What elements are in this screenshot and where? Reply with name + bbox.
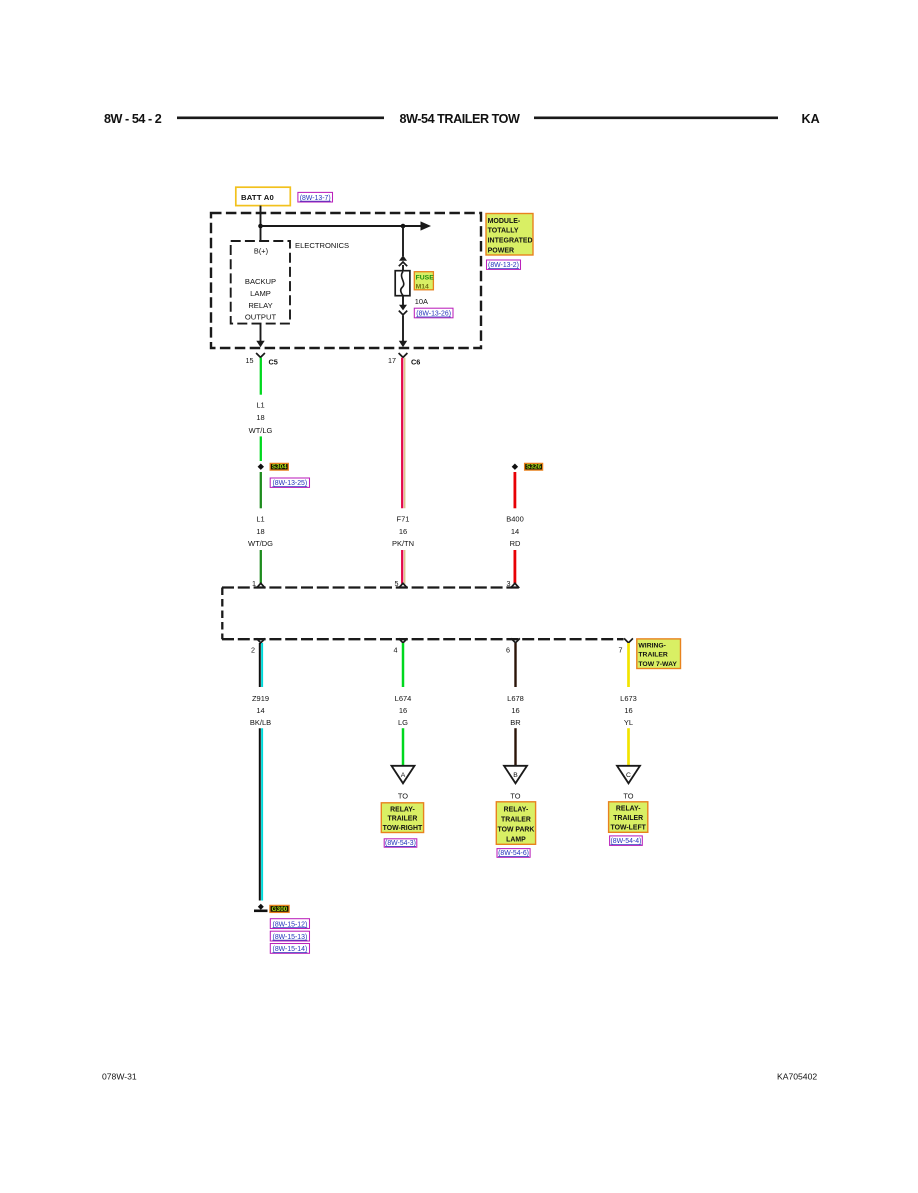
off-page connector A xyxy=(392,766,415,784)
off-page connector B xyxy=(504,766,527,784)
svg-text:B400: B400 xyxy=(506,515,524,524)
svg-text:BATT A0: BATT A0 xyxy=(241,193,274,202)
off-page connector C xyxy=(617,766,640,784)
svg-text:4: 4 xyxy=(394,646,398,655)
text ELECTRONICS xyxy=(295,241,349,250)
destination label RELAY-TRAILER TOW-LEFT xyxy=(609,802,648,833)
text TO (B) xyxy=(510,792,520,801)
splice label S304 xyxy=(270,463,288,470)
pin 7 label xyxy=(619,646,623,655)
header rule right xyxy=(534,117,778,120)
svg-text:18: 18 xyxy=(256,527,264,536)
pin 5 chevron xyxy=(399,583,408,588)
svg-text:TOTALLY: TOTALLY xyxy=(488,228,519,235)
svg-text:(8W-15-14): (8W-15-14) xyxy=(273,946,308,953)
svg-text:TOW-RIGHT: TOW-RIGHT xyxy=(383,825,423,832)
text TO (A) xyxy=(398,792,408,801)
svg-text:(8W-13-26): (8W-13-26) xyxy=(416,311,451,318)
wire below fuse xyxy=(402,296,404,305)
svg-text:INTEGRATED: INTEGRATED xyxy=(488,238,533,245)
destination label RELAY-TRAILER TOW-RIGHT xyxy=(381,803,423,833)
link 8W-15-13 xyxy=(270,931,309,941)
wire WT/DG lower segment xyxy=(260,550,262,584)
svg-text:(8W-13-2): (8W-13-2) xyxy=(488,262,519,269)
link 8W-13-2 xyxy=(487,260,521,269)
wire label F71 16 PK/TN xyxy=(392,515,414,549)
svg-text:C6: C6 xyxy=(411,358,420,367)
wire relay output to C5 xyxy=(256,324,264,348)
svg-text:S326: S326 xyxy=(526,464,541,471)
svg-text:TO: TO xyxy=(623,792,633,801)
svg-text:16: 16 xyxy=(511,706,519,715)
pin 7 chevron xyxy=(624,638,633,642)
pin 4 label xyxy=(394,646,398,655)
wire L678 16 BR upper segment xyxy=(514,643,516,687)
wire label L678 16 BR xyxy=(507,694,524,727)
svg-text:BR: BR xyxy=(510,718,521,727)
svg-text:MODULE-: MODULE- xyxy=(488,218,521,225)
wire BK/LB lower segment to ground xyxy=(260,728,262,900)
value label 10A xyxy=(415,297,428,306)
svg-text:KA: KA xyxy=(802,112,820,126)
wire label L1 18 WT/DG xyxy=(248,515,273,549)
svg-text:TOW PARK: TOW PARK xyxy=(498,827,535,834)
svg-text:C5: C5 xyxy=(269,358,278,367)
svg-text:16: 16 xyxy=(624,706,632,715)
pin 1 chevron xyxy=(256,583,265,588)
wire label L1 18 WT/LG xyxy=(249,401,273,436)
pin 2 chevron xyxy=(256,638,265,642)
svg-text:(8W-13-7): (8W-13-7) xyxy=(300,195,331,202)
svg-text:S304: S304 xyxy=(272,464,287,471)
svg-text:LAMP: LAMP xyxy=(250,289,271,298)
wire fuse branch upper xyxy=(402,226,404,256)
svg-text:G300: G300 xyxy=(272,906,288,913)
svg-text:WT/LG: WT/LG xyxy=(249,426,273,435)
svg-text:A: A xyxy=(401,772,406,779)
node junction at fuse branch xyxy=(401,224,406,229)
wire LG lower segment xyxy=(402,728,405,766)
wire L674 16 LG upper segment xyxy=(402,643,405,687)
svg-text:KA705402: KA705402 xyxy=(777,1071,817,1081)
wire label B400 14 RD xyxy=(506,515,524,549)
pin 1 label xyxy=(252,579,256,588)
splice S304 xyxy=(258,464,264,470)
wire L673 16 YL upper segment xyxy=(627,643,630,687)
link 8W-13-26 xyxy=(414,308,453,318)
svg-text:8W - 54 - 2: 8W - 54 - 2 xyxy=(104,112,162,126)
connector strip left dashed edge xyxy=(221,588,223,640)
svg-text:TRAILER: TRAILER xyxy=(638,652,668,659)
link 8W-54-4 xyxy=(610,836,643,846)
wire L1 18 WT/LG upper segment xyxy=(260,358,262,395)
wire from BATT A0 into TIPM xyxy=(260,206,262,242)
pin 3 label xyxy=(507,579,511,588)
svg-text:18: 18 xyxy=(256,413,264,422)
wire YL lower segment xyxy=(627,728,630,766)
connector symbol below fuse xyxy=(399,305,407,315)
page header center title 8W-54 TRAILER TOW xyxy=(400,112,520,126)
link 8W-15-12 xyxy=(270,919,309,929)
svg-text:B(+): B(+) xyxy=(254,247,268,256)
svg-text:M14: M14 xyxy=(416,284,429,291)
svg-text:PK/TN: PK/TN xyxy=(392,539,414,548)
svg-text:RD: RD xyxy=(510,539,521,548)
module label MODULE-TOTALLY INTEGRATED POWER xyxy=(486,214,533,256)
svg-text:L678: L678 xyxy=(507,694,524,703)
fuse label FUSE M14 xyxy=(414,272,434,291)
svg-text:(8W-54-6): (8W-54-6) xyxy=(498,850,529,857)
svg-text:BACKUP: BACKUP xyxy=(245,277,276,286)
link 8W-54-6 xyxy=(497,849,530,858)
svg-text:RELAY: RELAY xyxy=(248,301,272,310)
connector label C5 xyxy=(269,358,278,367)
ground G300 symbol xyxy=(254,904,268,911)
destination label RELAY-TRAILER TOW PARK LAMP xyxy=(496,802,535,845)
svg-text:17: 17 xyxy=(388,356,396,365)
wire L1 18 WT/DG upper segment xyxy=(260,472,262,508)
wire F71 16 PK/TN upper segment xyxy=(402,358,405,509)
svg-text:(8W-13-25): (8W-13-25) xyxy=(272,480,307,487)
pin label B(+) xyxy=(254,247,268,256)
page header left title 8W-54-2 xyxy=(104,112,162,126)
connector strip top dashed edge xyxy=(222,586,520,588)
wire into fuse xyxy=(402,265,404,271)
svg-text:TOW-LEFT: TOW-LEFT xyxy=(611,825,647,832)
svg-text:TO: TO xyxy=(510,792,520,801)
header rule left xyxy=(177,117,384,120)
footer drawing number KA705402 xyxy=(777,1071,817,1081)
svg-text:TOW 7-WAY: TOW 7-WAY xyxy=(638,661,677,668)
wire WT/LG lower segment xyxy=(260,436,262,461)
text OUTPUT xyxy=(245,313,277,322)
pin 4 chevron xyxy=(399,638,408,642)
svg-text:LAMP: LAMP xyxy=(506,837,526,844)
text LAMP xyxy=(250,289,271,298)
svg-text:16: 16 xyxy=(399,706,407,715)
wire Z919 14 BK/LB upper segment xyxy=(260,643,262,687)
svg-text:L1: L1 xyxy=(256,515,264,524)
svg-text:RELAY-: RELAY- xyxy=(616,806,641,813)
svg-text:RELAY-: RELAY- xyxy=(504,806,529,813)
pin 6 label xyxy=(506,646,510,655)
wire BR lower segment xyxy=(514,728,516,766)
svg-text:RELAY-: RELAY- xyxy=(390,806,415,813)
node junction at B(+) feed xyxy=(258,224,263,229)
svg-text:L674: L674 xyxy=(395,694,412,703)
svg-text:L1: L1 xyxy=(256,401,264,410)
text RELAY xyxy=(248,301,272,310)
svg-text:C: C xyxy=(626,772,631,779)
wire label L674 16 LG xyxy=(395,694,412,727)
svg-text:WIRING-: WIRING- xyxy=(638,643,666,650)
connector label C6 xyxy=(411,358,420,367)
svg-text:5: 5 xyxy=(395,579,399,588)
wire RD lower segment xyxy=(514,550,517,584)
relay block BACKUP LAMP RELAY OUTPUT dashed outline xyxy=(231,241,290,324)
pin 6 chevron xyxy=(511,638,520,642)
svg-text:7: 7 xyxy=(619,646,623,655)
connector C5 chevron xyxy=(256,353,265,357)
link 8W-15-14 xyxy=(270,944,309,954)
svg-text:14: 14 xyxy=(511,527,519,536)
pin 5 label xyxy=(395,579,399,588)
pin 15 label xyxy=(246,356,254,365)
wire B400 14 RD upper segment xyxy=(514,472,517,508)
connector symbol above fuse xyxy=(399,255,407,266)
svg-text:(8W-54-3): (8W-54-3) xyxy=(385,840,416,847)
ground label G300 xyxy=(270,905,289,912)
splice S326 xyxy=(512,464,518,470)
svg-text:FUSE: FUSE xyxy=(416,274,435,281)
svg-text:TRAILER: TRAILER xyxy=(501,816,531,823)
svg-text:BK/LB: BK/LB xyxy=(250,718,271,727)
svg-text:(8W-54-4): (8W-54-4) xyxy=(611,838,642,845)
svg-text:078W-31: 078W-31 xyxy=(102,1071,137,1081)
svg-text:1: 1 xyxy=(252,579,256,588)
svg-text:L673: L673 xyxy=(620,694,637,703)
svg-text:3: 3 xyxy=(507,579,511,588)
arrow feed continues right xyxy=(421,221,432,230)
svg-text:ELECTRONICS: ELECTRONICS xyxy=(295,241,349,250)
svg-text:B: B xyxy=(513,772,518,779)
svg-text:TRAILER: TRAILER xyxy=(613,815,643,822)
wire label Z919 14 BK/LB xyxy=(250,694,271,727)
splice label S326 xyxy=(525,463,543,470)
svg-text:16: 16 xyxy=(399,527,407,536)
pin 17 label xyxy=(388,356,396,365)
link 8W-54-3 xyxy=(384,839,417,847)
svg-text:F71: F71 xyxy=(397,515,410,524)
link 8W-13-25 xyxy=(270,478,309,487)
text TO (C) xyxy=(623,792,633,801)
link 8W-13-7 xyxy=(298,192,333,202)
svg-text:(8W-15-13): (8W-15-13) xyxy=(273,934,308,941)
text BACKUP xyxy=(245,277,276,286)
svg-text:TRAILER: TRAILER xyxy=(388,816,418,823)
wire fuse to C6 xyxy=(399,316,407,348)
wire label L673 16 YL xyxy=(620,694,637,727)
svg-text:8W-54 TRAILER TOW: 8W-54 TRAILER TOW xyxy=(400,112,520,126)
svg-text:Z919: Z919 xyxy=(252,694,269,703)
fuse M14 symbol xyxy=(395,271,410,296)
svg-text:WT/DG: WT/DG xyxy=(248,539,273,548)
battery feed label BATT A0 xyxy=(236,187,290,205)
svg-text:6: 6 xyxy=(506,646,510,655)
svg-text:OUTPUT: OUTPUT xyxy=(245,313,277,322)
module TIPM dashed outline xyxy=(211,213,481,348)
svg-text:(8W-15-12): (8W-15-12) xyxy=(273,921,308,928)
connector strip bottom dashed edge xyxy=(222,638,624,640)
footer sheet number 078W-31 xyxy=(102,1071,137,1081)
svg-text:POWER: POWER xyxy=(488,247,514,254)
svg-text:14: 14 xyxy=(256,706,264,715)
svg-text:YL: YL xyxy=(624,718,633,727)
svg-text:2: 2 xyxy=(251,646,255,655)
wire bus inside TIPM horizontal xyxy=(261,225,422,227)
svg-text:TO: TO xyxy=(398,792,408,801)
pin 2 label xyxy=(251,646,255,655)
svg-text:15: 15 xyxy=(246,356,254,365)
svg-text:LG: LG xyxy=(398,718,408,727)
svg-text:10A: 10A xyxy=(415,297,428,306)
pin 3 chevron xyxy=(511,583,520,588)
wire PK/TN lower segment xyxy=(402,550,405,584)
connector label WIRING-TRAILER TOW 7-WAY xyxy=(637,639,681,669)
connector C6 chevron xyxy=(399,353,408,357)
page header right KA xyxy=(802,112,820,126)
